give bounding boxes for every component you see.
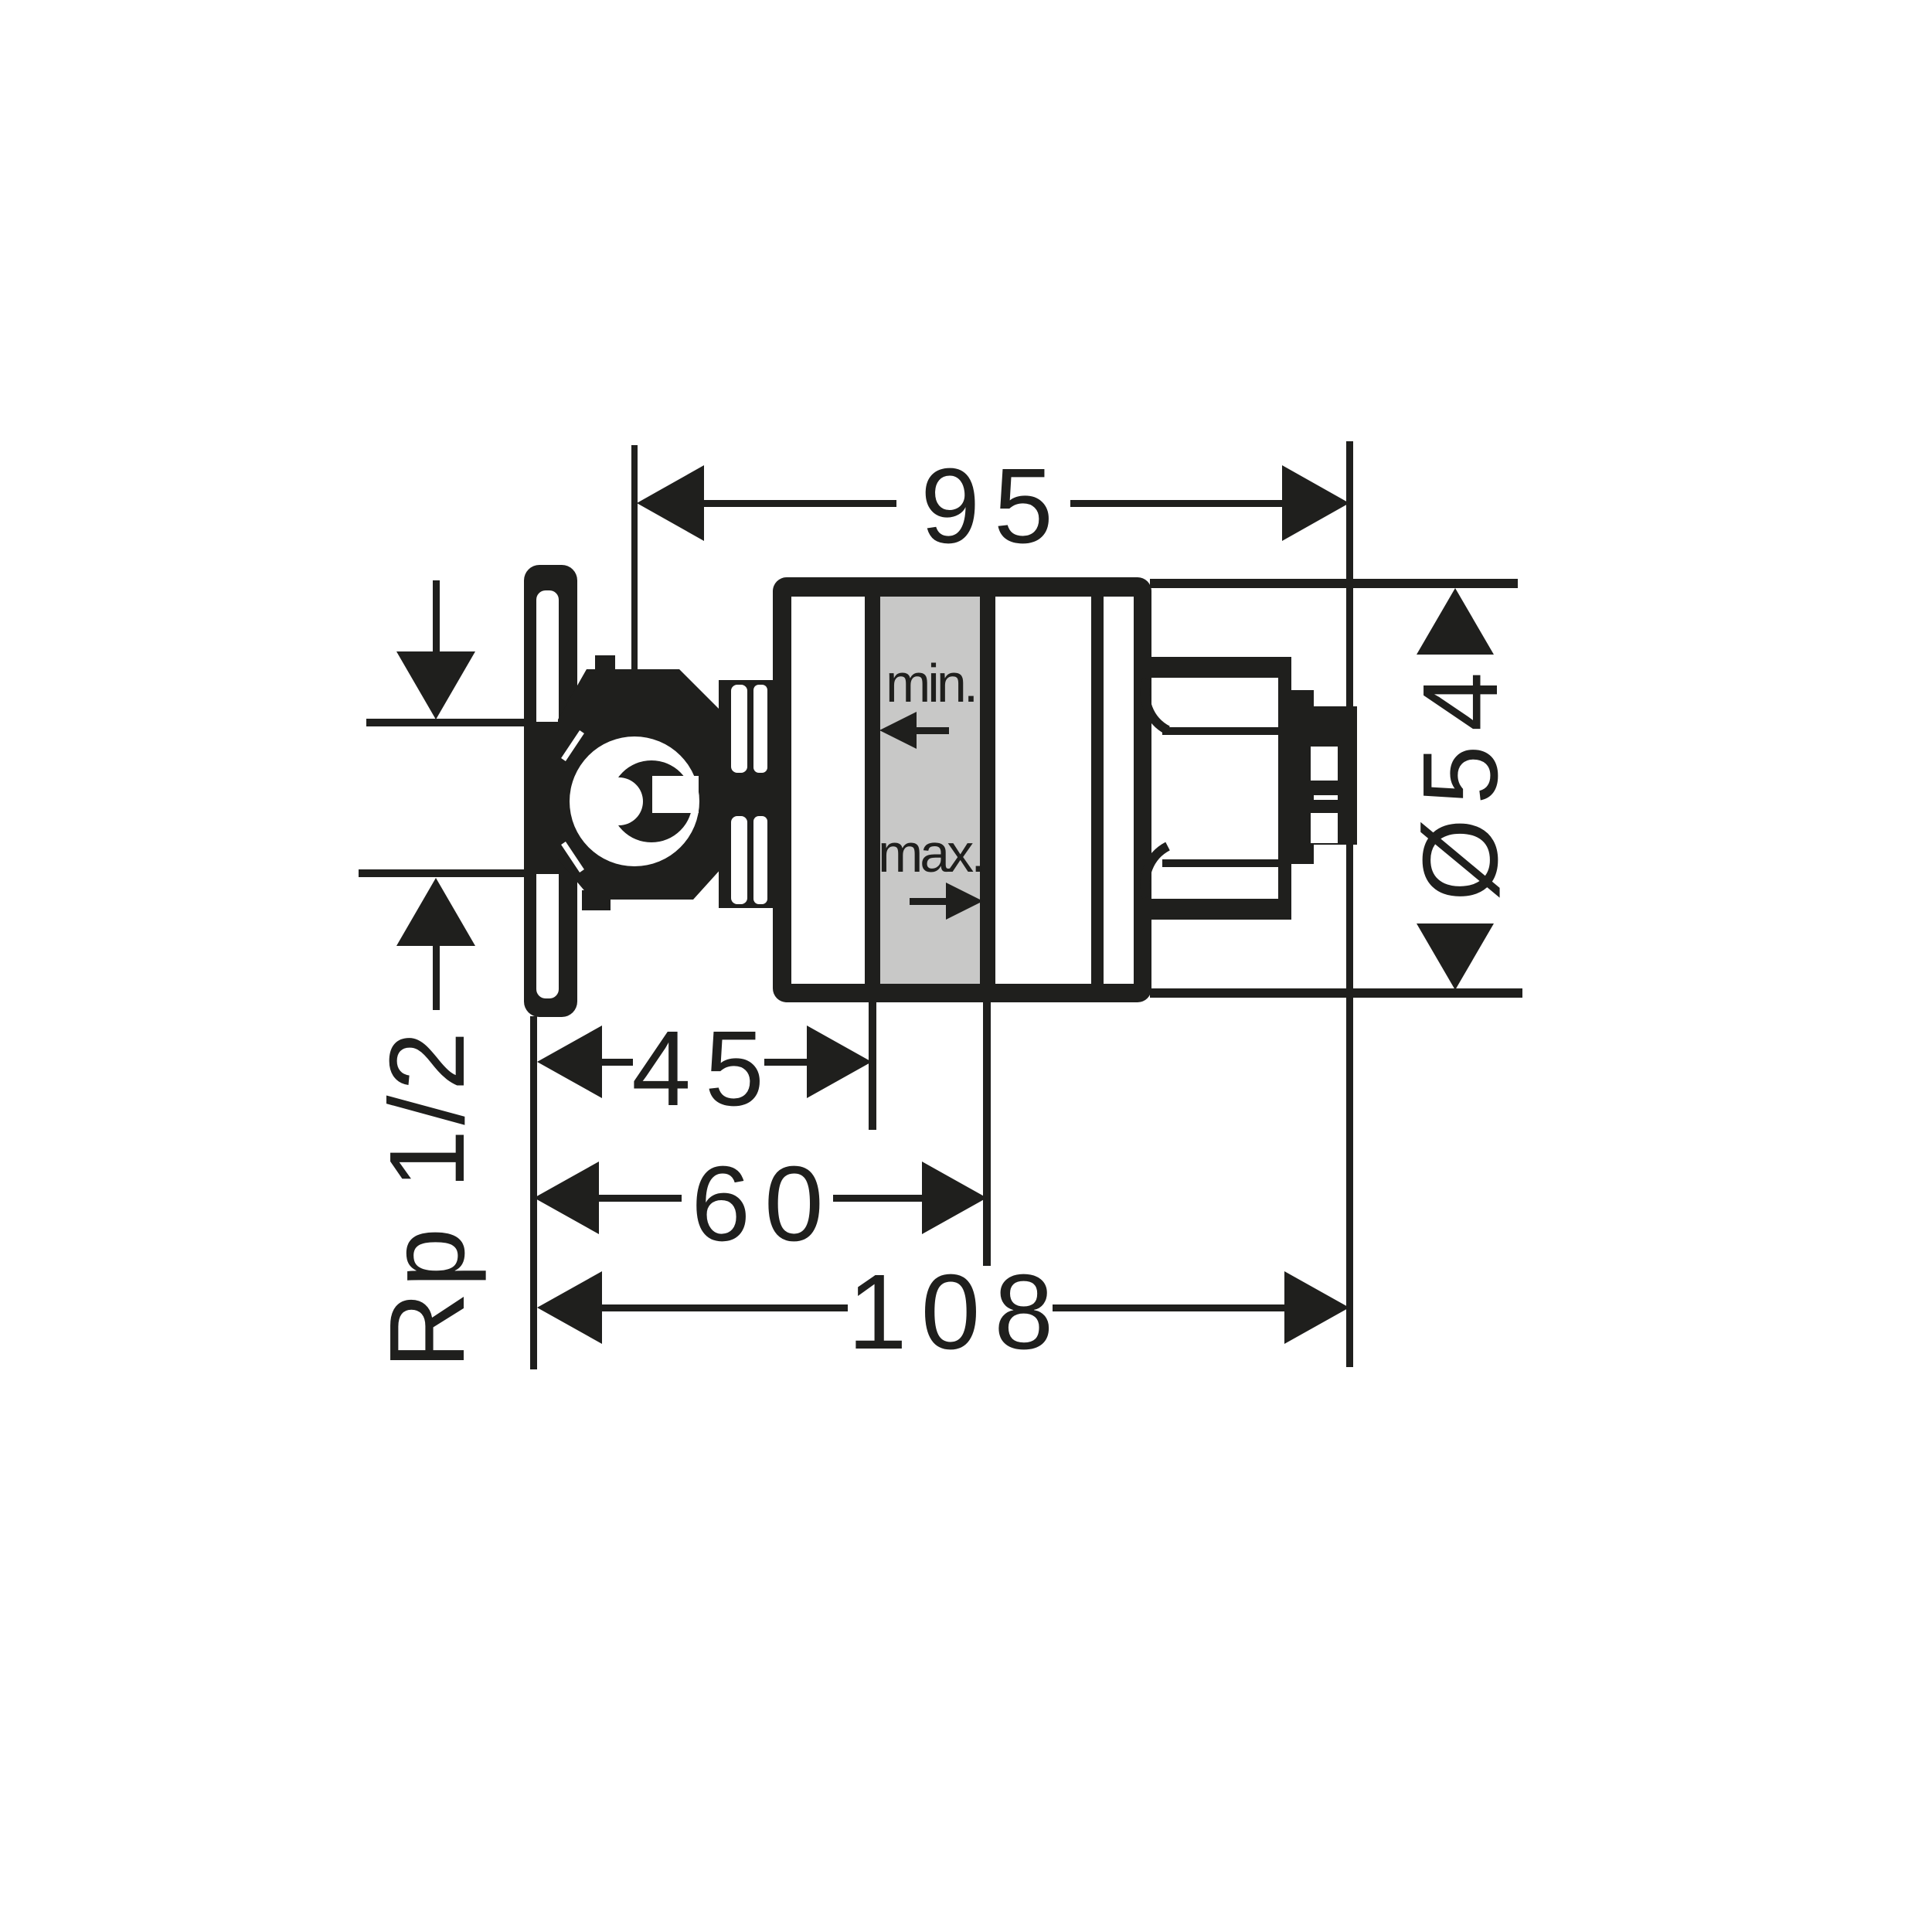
dim 95/108: right long extension line <box>1346 441 1353 1367</box>
svg-text:108: 108 <box>848 1253 1067 1372</box>
dim 54: top reference line <box>1150 579 1518 588</box>
spigot notch bottom <box>1311 813 1338 843</box>
flange relief curve bottom <box>1145 846 1168 897</box>
dim 60: line stubs <box>599 1195 682 1202</box>
dim 108: left arrow <box>537 1271 602 1344</box>
dim 95: line right stub <box>1070 500 1284 507</box>
spigot neck <box>1291 690 1314 864</box>
max arrow <box>946 883 983 920</box>
dim 54: up arrow <box>1417 588 1494 655</box>
Rp1/2 pointer: upper vertical line <box>433 580 440 651</box>
dim 108: right arrow <box>1284 1271 1349 1344</box>
flange right edge <box>1278 657 1291 920</box>
flange bottom edge <box>1134 899 1291 920</box>
dim 60: right arrow <box>922 1162 987 1234</box>
dim 108/45/60: left extension line <box>530 1016 537 1369</box>
dim 60: left arrow <box>534 1162 599 1234</box>
dim 54: down arrow <box>1417 923 1494 990</box>
Rp1/2 pointer: down arrow <box>396 651 475 719</box>
Rp1/2 pointer: up arrow <box>396 878 475 946</box>
body internal line 3 <box>1091 597 1104 984</box>
dim 45: line stubs <box>602 1059 633 1066</box>
handle nut (hexagon cross-section) <box>558 669 730 900</box>
min arrow <box>879 712 917 749</box>
dim 108: line stubs <box>602 1304 848 1311</box>
spigot notch top <box>1311 747 1338 781</box>
svg-text:Ø54: Ø54 <box>1401 658 1520 902</box>
svg-text:max.: max. <box>878 823 983 883</box>
spindle bite (white) <box>595 777 643 825</box>
connection top reference line <box>366 719 528 726</box>
spindle (black disc) <box>611 760 692 842</box>
dim 45: left arrow <box>537 1026 602 1098</box>
svg-text:min.: min. <box>886 653 975 713</box>
svg-text:Rp 1/2: Rp 1/2 <box>368 1027 487 1369</box>
spindle slot (white notch) <box>652 776 699 813</box>
dim 54: bottom reference line <box>1150 988 1522 998</box>
Rp1/2 pointer: lower vertical line <box>433 946 440 1010</box>
dim 60: right extension line <box>983 1002 991 1266</box>
dim 95: right arrow <box>1282 465 1349 541</box>
svg-text:60: 60 <box>691 1145 838 1264</box>
valve passage through plate (black fill between connection lines) <box>524 722 601 874</box>
flange (stepped ring) top edge <box>1134 657 1291 678</box>
valve body outer box <box>773 577 1151 1002</box>
flange inner line bottom <box>1162 859 1278 867</box>
dim 95: left arrow <box>637 465 704 541</box>
white sliver bottom-left of nut <box>563 843 582 871</box>
nut top lug <box>595 655 615 675</box>
body internal line 2 (max position) <box>980 597 995 984</box>
dim 45: right arrow <box>807 1026 872 1098</box>
wall plate (escutcheon cross-section) <box>524 565 577 1017</box>
dim 95: left extension line <box>631 445 638 669</box>
adjustable gray zone <box>880 597 980 984</box>
connector sleeve between nut and body <box>719 680 777 908</box>
spigot groove line <box>1314 795 1338 800</box>
flange inner line top <box>1162 727 1278 735</box>
spigot end piece <box>1314 706 1357 845</box>
svg-text:95: 95 <box>920 447 1067 566</box>
white sliver top-left of nut <box>563 732 582 760</box>
body internal line 1 (min position) <box>865 597 880 984</box>
dim 45: right extension line <box>869 1002 876 1130</box>
spindle bore (white circle) <box>570 736 699 866</box>
flange relief curve top <box>1145 679 1168 730</box>
svg-text:45: 45 <box>631 1009 778 1128</box>
nut bottom lug <box>582 890 611 910</box>
sleeve slot white strips <box>731 685 747 773</box>
dim 95: line left stub <box>702 500 896 507</box>
connection bottom reference line <box>359 869 528 877</box>
